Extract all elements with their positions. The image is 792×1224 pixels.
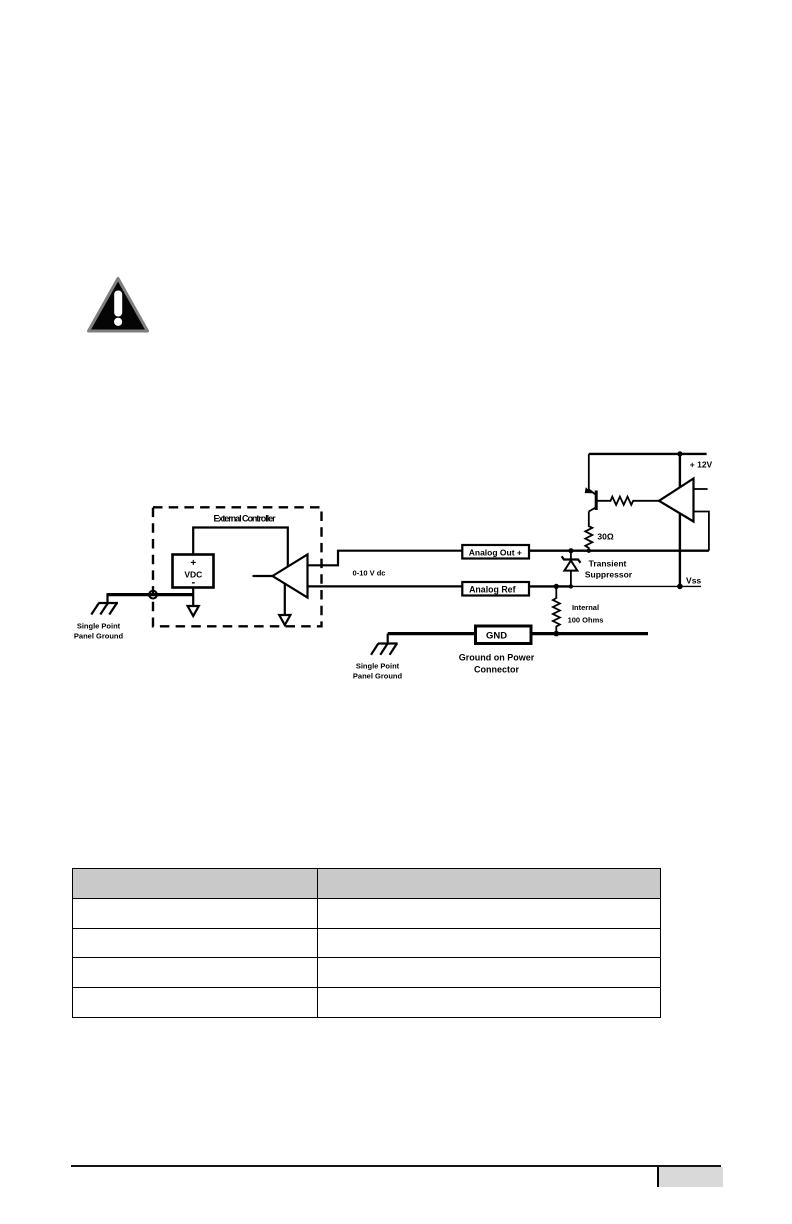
wire panel ground bus to VDC minus [108,593,194,596]
terminal GND box [476,626,532,644]
node dot Vss [677,584,683,590]
svg-text:Analog Ref: Analog Ref [469,584,515,594]
wire U1 top input to Analog Out+ [308,551,463,566]
bulkhead feedthrough node on panel [149,591,157,599]
external controller dashed box [153,507,322,626]
wire Analog Out+ line [529,550,709,552]
svg-text:Ground on Power: Ground on Power [459,653,535,663]
svg-text:Panel Ground: Panel Ground [74,632,124,641]
node dot diode bottom [569,584,573,588]
Vss vertical rail [679,454,681,587]
transistor Q1 (PNP) [585,454,597,525]
resistor R3 internal vertical [553,586,560,633]
svg-text:Panel Ground: Panel Ground [353,672,403,681]
svg-text:Connector: Connector [474,665,519,675]
op-amp U1 (external controller) [273,555,308,598]
svg-text:Vss: Vss [686,576,701,586]
+12V rail [589,453,707,455]
wire U1 bottom input to Analog Ref [308,585,463,587]
svg-text:+ 12V: + 12V [690,460,713,470]
svg-text:100 Ohms: 100 Ohms [568,616,604,625]
chassis ground GND1 [91,593,118,614]
resistor R2 base horizontal [596,497,659,505]
wire Analog Ref line thick part [529,585,572,587]
terminal Analog Ref [462,582,529,596]
node dot rail top [677,451,682,456]
svg-text:30Ω: 30Ω [597,532,613,542]
wire U1 output stub [253,575,273,577]
ground arrow below U1 [279,584,290,625]
wire Analog Ref to Vss line thin part [572,585,701,587]
svg-text:0-10 V dc: 0-10 V dc [353,569,386,578]
node dot R3 top [554,584,559,589]
svg-text:Transient: Transient [589,559,627,569]
footer page tab [657,1167,723,1187]
data table [72,868,661,1018]
svg-text:Suppressor: Suppressor [585,570,633,580]
GND bus line [388,632,648,635]
node dot R3 bottom [554,631,560,637]
warning icon [89,279,148,332]
svg-text:Single Point: Single Point [77,622,121,631]
svg-text:External Controller: External Controller [213,514,276,524]
node dot diode top [568,548,573,553]
svg-text:Analog Out +: Analog Out + [469,548,522,558]
resistor R1 30 ohm vertical [585,525,592,551]
svg-text:Internal: Internal [572,603,599,612]
source VDC [173,555,214,589]
svg-text:GND: GND [486,631,507,642]
wire U2 bottom input feedback [694,512,709,551]
wire VDC+ to op-amp U1 [193,528,288,567]
node dot resistor R1 bottom [587,549,591,553]
svg-text:-: - [191,577,195,589]
footer rule [71,1165,721,1167]
ground arrow below VDC [188,588,199,617]
svg-text:+: + [190,558,196,569]
chassis ground GND2 [371,634,398,655]
svg-text:Single Point: Single Point [356,662,400,671]
zener diode D1 transient suppressor [562,551,581,587]
terminal Analog Out + [462,545,529,559]
wire U2 top input stub [694,488,708,490]
op-amp U2 (output driver) [659,479,694,522]
